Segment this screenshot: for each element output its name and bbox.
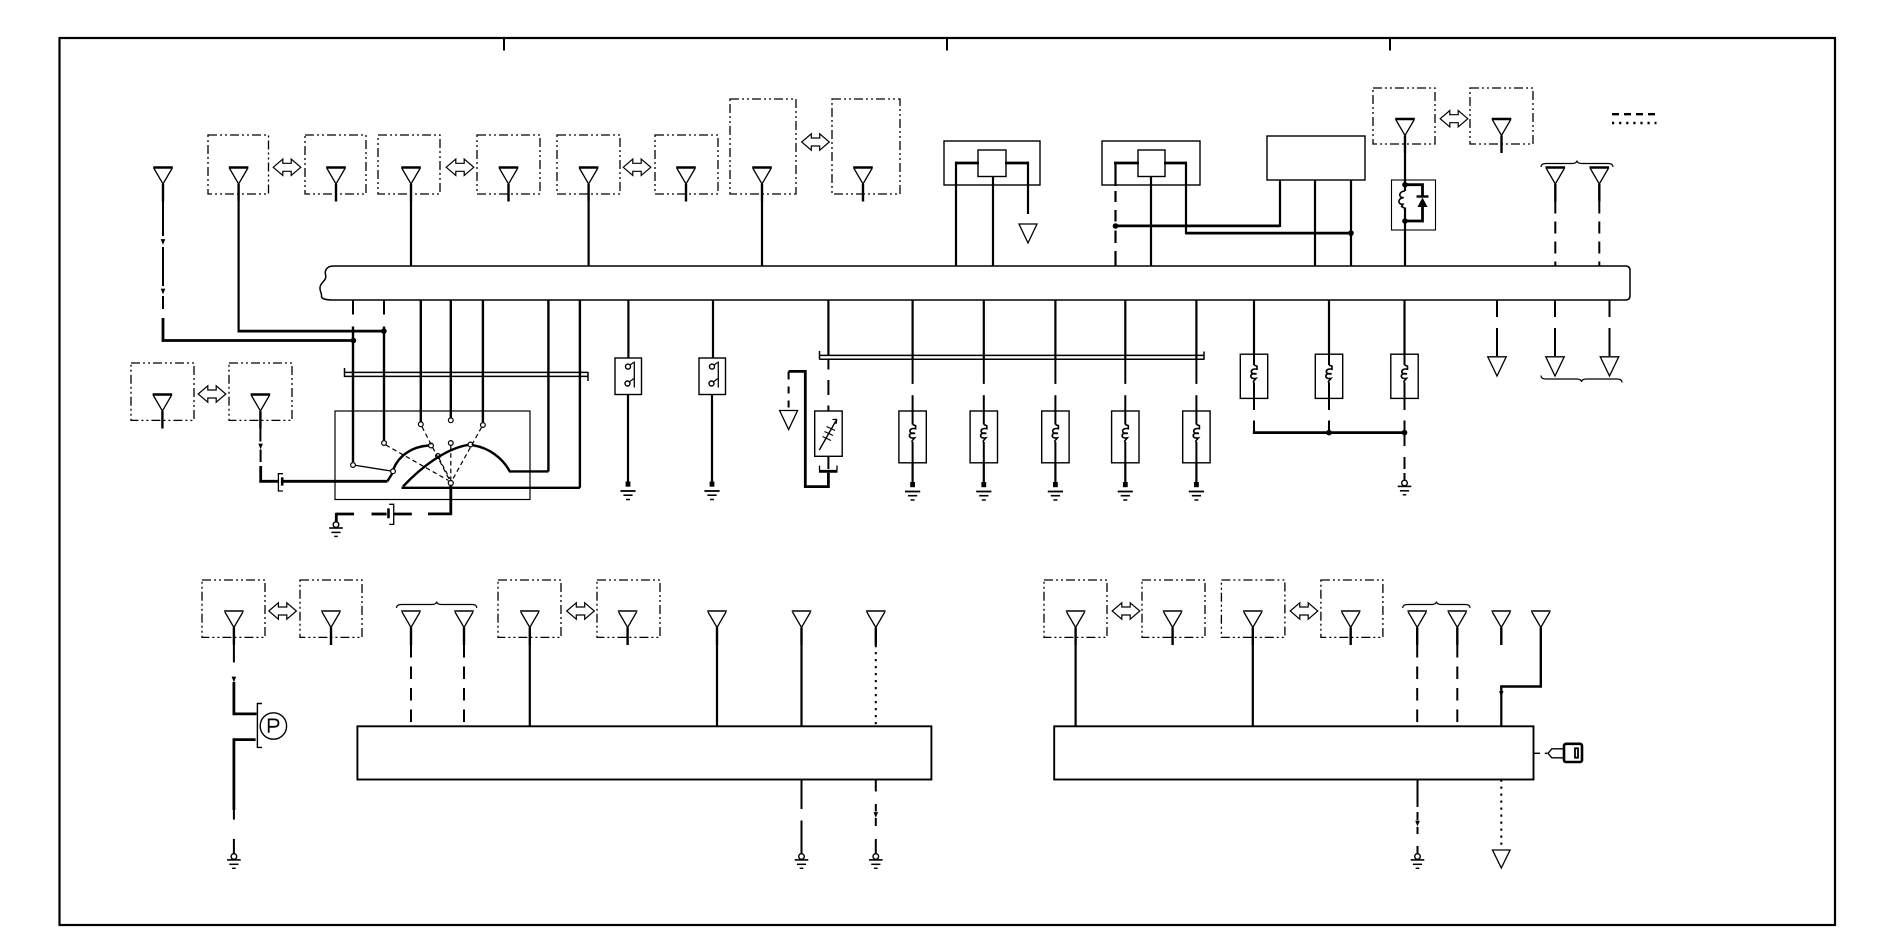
page connector arrow bottom right — [1493, 850, 1511, 868]
connector box B6 — [655, 135, 718, 194]
ignition key icon — [1534, 752, 1541, 754]
ground U3 — [1415, 854, 1421, 860]
ground under brake switch — [231, 854, 237, 860]
connector box B8 tall — [832, 99, 900, 194]
connector triangle CL8 — [792, 610, 812, 612]
connector box B4 — [477, 135, 540, 194]
F1 right pin wire — [1027, 162, 1029, 214]
arrow pair A4 — [802, 134, 830, 150]
wire S2 to ground — [711, 395, 713, 483]
ground U2-2 — [873, 854, 879, 860]
coil L3 box — [1042, 411, 1069, 463]
overbrace pair over U2 — [397, 602, 477, 609]
dashed wire CL4 to U2 — [463, 645, 465, 726]
wire C7 to bus — [761, 202, 763, 267]
U1 pin2 wire to bus — [1314, 180, 1316, 266]
K1 output wire to bus — [1404, 221, 1406, 266]
wire CL7 to U2 — [716, 645, 718, 726]
connector box B3 — [378, 135, 440, 194]
overbrace right pair — [1541, 161, 1613, 168]
variable resistor R1 box — [815, 411, 843, 456]
switch contact circle lower-left — [391, 469, 396, 474]
wire stub x384 to switch contact — [383, 300, 385, 315]
top border tick 1 — [503, 38, 505, 51]
connector triangle C10 — [1492, 118, 1512, 121]
dotted wire U3 to page arrow — [1500, 780, 1502, 849]
junction node coil common 1 — [1326, 430, 1332, 436]
S2 contacts — [710, 364, 715, 369]
arrow pair A5 — [1440, 111, 1468, 127]
connector box L7 — [1221, 580, 1285, 637]
connector box L8 — [1321, 580, 1383, 637]
connector triangle CR5 — [1407, 610, 1427, 612]
parking brake symbol P — [260, 713, 286, 739]
connector triangle C11 — [1546, 166, 1566, 169]
junction node on wire x384 — [381, 328, 387, 334]
wire CL8 to U2 — [800, 645, 802, 726]
wire CR3 to U3 — [1252, 645, 1254, 726]
switch common line to x580 — [402, 487, 580, 489]
wire bus to coil L5 — [1195, 300, 1197, 359]
arrow pair A1 — [273, 159, 301, 175]
module U1 — [1267, 136, 1365, 180]
wire stub x421 — [420, 300, 422, 422]
wire stub x548 into switch — [547, 300, 549, 472]
page connector arrow E1 — [1488, 357, 1507, 376]
connector strip above ignition switch — [345, 371, 589, 373]
connector triangle C7 — [752, 166, 772, 169]
wire bus to coil L8 — [1403, 300, 1405, 354]
wire L4 to ground — [1124, 463, 1126, 482]
connector triangle CR3 — [1243, 610, 1263, 612]
page connector arrow E3 — [1600, 357, 1619, 376]
connector box L2 — [300, 580, 362, 637]
coil L1 winding — [912, 411, 914, 425]
switch blade arc A — [394, 446, 429, 470]
connector box L1 — [202, 580, 265, 637]
switch contact circle mid-left — [429, 443, 434, 448]
wire C9 to K1 — [1404, 153, 1406, 187]
coil L1 box — [899, 411, 926, 463]
switch contact circle mid-right — [468, 442, 473, 447]
blade diagonal from line1 — [387, 474, 392, 482]
connector triangle CL6 — [618, 610, 638, 612]
switch contact square — [436, 454, 441, 459]
connector box L4 — [597, 580, 660, 637]
wire CL5 to U2 — [529, 645, 531, 726]
connector triangle CR4 — [1341, 610, 1361, 612]
rotor dashed ray to x451 contact — [450, 446, 452, 481]
connector triangle CL1 — [224, 610, 244, 612]
page connector arrow E2 — [1546, 357, 1565, 376]
connector triangle CL4 — [454, 610, 474, 612]
wire net B (F2 to module U1 pin3) — [1186, 232, 1351, 235]
connector triangle C9 — [1395, 118, 1415, 121]
wire bus to coil L4 — [1124, 300, 1126, 359]
dashed wire bus to arrow E2 — [1554, 300, 1556, 317]
wire bus to coil L6 — [1253, 300, 1255, 354]
fuse box F1 outline — [944, 141, 1040, 185]
wire S1 to ground — [627, 395, 629, 483]
switch S2 box — [699, 358, 726, 395]
wire L5 to ground — [1195, 463, 1197, 482]
wire stub x580 into switch — [579, 300, 581, 488]
switch blade arc B left — [403, 445, 468, 487]
module U2 — [357, 726, 931, 779]
F2 center pin wire to bus — [1150, 177, 1152, 267]
brake switch lower wire — [233, 738, 256, 741]
underbrace right arrows — [1541, 376, 1622, 383]
battery B1 bracket plate — [389, 504, 394, 524]
rotor dashed ray to x421 contact — [422, 427, 450, 480]
brake switch upper wire — [233, 713, 257, 716]
switch contact circle x353 — [351, 463, 356, 468]
F1 center pin wire to bus — [992, 177, 994, 267]
F2 internal wiring — [1114, 162, 1139, 165]
connector box B5 — [557, 135, 620, 194]
coil L8 winding — [1404, 354, 1406, 365]
legend dotted line — [1612, 122, 1657, 124]
ground under L4 — [1123, 482, 1128, 487]
F2 left pin wire — [1114, 162, 1116, 186]
wire U2 to ground 1 — [801, 780, 803, 810]
wire CM2 elbow to capacitor — [259, 480, 278, 483]
wire net A (F2 to module U1 pin1) — [1116, 224, 1281, 227]
connector triangle CL9 — [866, 610, 886, 612]
rotor dashed ray to x483 contact — [452, 427, 481, 480]
ground under L2 — [981, 482, 986, 487]
dashed wire C12 to bus — [1598, 202, 1600, 267]
coil L3 winding — [1054, 411, 1056, 425]
dashed wire bus to arrow E3 — [1609, 300, 1611, 317]
wire from C1 to switch feed — [238, 202, 240, 333]
dashed wire CR5 to U3 — [1416, 645, 1418, 726]
coil L4 winding — [1124, 411, 1126, 425]
K1 junction bottom — [1402, 218, 1408, 224]
top border tick 2 — [946, 38, 948, 51]
coil L2 winding — [983, 411, 985, 425]
wire stub x483 — [482, 300, 484, 422]
switch contact circle x384 — [382, 441, 387, 446]
connector box B2 — [305, 135, 366, 194]
dashed wire CL3 to U2 — [410, 645, 412, 726]
wire CL1 down to brake switch — [233, 645, 235, 662]
dotted wire CL9 to U2 — [875, 645, 877, 726]
wire bus to switch S2 — [712, 300, 714, 358]
coil L4 box — [1112, 411, 1139, 463]
wire CR8 elbow to U3 — [1501, 645, 1541, 695]
coil L7 winding — [1328, 354, 1330, 365]
F1 left pin wire to bus — [955, 162, 957, 266]
connector triangle CL2 — [321, 610, 341, 612]
arrow pair AL2 — [567, 603, 595, 619]
ground under S1 — [626, 482, 631, 487]
battery B1 straight plate — [387, 508, 390, 518]
dashed wire to page arrow — [788, 371, 790, 379]
connector triangle CM1 — [153, 393, 173, 396]
wire stub x353 (dashed then bold) to switch contact — [352, 300, 354, 315]
relay K1 box — [1392, 180, 1436, 230]
switch blade arc B right — [473, 445, 548, 471]
ground under L3 — [1053, 482, 1058, 487]
wire R1 to connector loop — [789, 371, 829, 486]
coil L6 box — [1240, 354, 1267, 398]
battery left wire — [372, 513, 387, 516]
connector triangle T0 — [153, 166, 173, 169]
S1 contacts — [626, 364, 631, 369]
connector box L6 — [1142, 580, 1205, 637]
K1 junction top — [1402, 182, 1408, 188]
coil L7 box — [1315, 354, 1342, 398]
coil L8 box — [1391, 354, 1418, 398]
connector box L5 — [1044, 580, 1107, 637]
junction node coil common 2 — [1402, 430, 1408, 436]
wire bus to coil L2 — [983, 300, 985, 359]
connector triangle CR7 — [1492, 610, 1512, 612]
switch contact circle x483 — [481, 423, 486, 428]
coil L5 winding — [1195, 411, 1197, 425]
connector triangle C2 — [326, 166, 346, 169]
ground right coil group — [1402, 480, 1408, 486]
pivot wire down to battery line — [428, 486, 451, 514]
connector box B10 — [1470, 88, 1533, 144]
wire bus to switch S1 — [627, 300, 629, 358]
connector box M2 — [229, 363, 292, 420]
junction node F2 left pin — [1113, 223, 1119, 229]
arrow pair AL3 — [1112, 603, 1140, 619]
connector triangle C5 — [579, 166, 599, 169]
F1 internal wiring — [955, 162, 979, 165]
arrow pair AL4 — [1290, 603, 1318, 619]
wire CM2 down (dash-arrow) — [259, 429, 261, 442]
arrow pair AL1 — [269, 603, 297, 619]
dashed wire C11 to bus — [1554, 202, 1556, 267]
wire L2 to ground — [983, 463, 985, 482]
wire bus to bus2 x828 — [827, 300, 829, 355]
wire L7 below — [1328, 398, 1330, 410]
wire C5 to bus — [587, 202, 589, 267]
wire brake switch to ground — [232, 738, 235, 810]
diode D1 branch — [1405, 185, 1423, 197]
wire L6 below — [1253, 398, 1255, 410]
coil L6 winding — [1253, 354, 1255, 365]
connector box M1 — [131, 363, 194, 420]
connector box B7 tall — [730, 99, 796, 194]
fuse box F2 outline — [1102, 141, 1200, 185]
connector triangle C1 — [229, 166, 249, 169]
legend dashed line — [1612, 113, 1655, 115]
arrow pair A2 — [446, 159, 474, 175]
wire capacitor to ignition switch contact — [283, 480, 387, 483]
ground under L1 — [910, 482, 915, 487]
switch S1 box — [615, 358, 642, 395]
dashed wire CR6 to U3 — [1456, 645, 1458, 726]
connector strip bus2 — [820, 354, 1205, 356]
connector triangle CR2 — [1163, 610, 1183, 612]
F2 right pin wire — [1185, 162, 1187, 234]
rotor dashed ray to x384 contact — [386, 445, 449, 481]
rotor dashed ray to square contact — [439, 458, 450, 478]
wire bus to coil L3 — [1054, 300, 1056, 359]
page connector arrow x789 — [780, 411, 798, 430]
page connector arrow under F1 — [1019, 224, 1037, 243]
wire U2 to ground 2 (dash-arrow) — [875, 780, 877, 792]
connector triangle C12 — [1590, 166, 1610, 169]
connector box B9 — [1373, 88, 1435, 144]
battery feed wire segment — [394, 513, 412, 516]
switch contact circles x451 — [448, 418, 453, 423]
connector triangle CL3 — [401, 610, 421, 612]
wire U3 to ground (dash-arrow) — [1417, 780, 1419, 808]
connector triangle C4 — [499, 166, 519, 169]
connector triangle CL7 — [707, 610, 727, 612]
fuse F2 element — [1138, 150, 1165, 177]
capacitor plate under R1 — [819, 466, 821, 471]
wire L8 below — [1404, 398, 1406, 410]
wire L3 to ground — [1054, 463, 1056, 482]
ground under S2 — [710, 482, 715, 487]
wire bus to coil L7 — [1328, 300, 1330, 354]
wire from T0 (dash-dot with arrows) — [162, 202, 164, 237]
ground under L5 — [1194, 482, 1199, 487]
wire C3 to bus — [410, 202, 412, 267]
ground U2-1 — [799, 854, 805, 860]
junction node net B — [1348, 230, 1354, 236]
module U3 — [1054, 726, 1533, 779]
main bus bar — [320, 266, 1630, 300]
U1 pin3 wire to bus — [1350, 180, 1352, 266]
connector triangle CR6 — [1448, 610, 1468, 612]
dashed wire bus2 to resistor — [827, 359, 829, 369]
fuse F1 element — [978, 150, 1006, 177]
common wire of right coil group — [1253, 431, 1405, 434]
top border tick 3 — [1389, 38, 1391, 51]
coil L5 box — [1183, 411, 1210, 463]
wire bus to coil L1 — [911, 300, 913, 359]
R1 element diagonal with wiper — [819, 419, 837, 450]
dashed wire bus to arrow E1 — [1496, 300, 1498, 317]
wire L1 to ground — [911, 463, 913, 482]
wire CR1 to U3 — [1074, 645, 1076, 726]
arrow pair A3 — [623, 159, 651, 175]
connector triangle C6 — [676, 166, 696, 169]
connector box B1 — [208, 135, 269, 194]
link wire from x353 contact — [356, 465, 391, 471]
switch contact circle x421 — [418, 422, 423, 427]
connector triangle CR1 — [1066, 610, 1086, 612]
ignition switch body — [335, 411, 530, 500]
brake switch bracket — [257, 704, 262, 748]
coil L2 box — [970, 411, 997, 463]
connector triangle CL5 — [520, 610, 540, 612]
dashed wire to ground x1404 — [1404, 433, 1406, 446]
capacitor C2 straight plate — [281, 477, 284, 485]
connector triangle C3 — [401, 166, 421, 169]
arrow pair AM — [198, 386, 226, 402]
connector triangle C8 — [853, 166, 873, 169]
connector box L3 — [498, 580, 561, 637]
ground under battery — [333, 522, 339, 528]
connector triangle CM2 — [251, 393, 271, 396]
connector triangle CR8 — [1531, 610, 1551, 612]
wire stub x451 — [450, 300, 452, 418]
junction node on wire x353 — [351, 338, 357, 344]
switch rotor pivot — [448, 481, 453, 486]
capacitor C2 bracket plate — [278, 474, 283, 491]
overbrace pair over U3 — [1403, 602, 1470, 609]
K1 coil — [1404, 185, 1406, 191]
